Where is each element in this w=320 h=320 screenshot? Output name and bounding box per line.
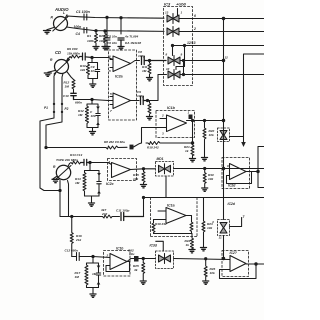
wire IC3h control <box>156 241 164 251</box>
wire IC2c out <box>131 168 156 170</box>
svg-text:R8 262 C6 60u: R8 262 C6 60u <box>104 140 125 144</box>
svg-text:4: 4 <box>108 160 111 164</box>
ground C6 <box>118 47 124 50</box>
jack J1 <box>53 15 68 31</box>
svg-text:7: 7 <box>243 215 246 219</box>
resistor R13b <box>148 101 151 117</box>
label N2 values <box>78 109 96 118</box>
svg-text:R: R <box>53 165 56 169</box>
svg-text:P2: P2 <box>65 107 69 111</box>
wire node D to IC1c <box>93 257 110 258</box>
resistor R19 <box>190 222 193 234</box>
wire C11 up to main line <box>142 196 144 216</box>
RC network N3 <box>83 171 101 203</box>
wire jack3 drop2 <box>68 181 69 217</box>
wire IC3g side <box>230 218 242 227</box>
resistor R23 (from main line) <box>202 198 205 248</box>
op-amp IC1b <box>154 208 187 224</box>
capacitor C11 <box>121 213 144 221</box>
svg-text:IC2d: IC2d <box>228 184 236 188</box>
svg-text:10k: 10k <box>133 177 138 181</box>
op-amp IC1a <box>160 115 187 132</box>
label R25 <box>133 264 139 272</box>
label R11 <box>142 65 148 73</box>
capacitor C6r <box>130 145 134 150</box>
ground N3 <box>89 203 95 206</box>
svg-text:C10: C10 <box>63 94 69 98</box>
op-amp IC2b <box>110 93 131 109</box>
wire jack1 to ground <box>47 28 54 30</box>
wire node A to IC2a <box>92 58 113 60</box>
wire main bottom <box>144 197 265 199</box>
svg-text:L: L <box>63 11 65 15</box>
label R21 <box>184 145 190 153</box>
label C4 100n <box>74 25 82 36</box>
wire IC2d feedback <box>227 172 252 184</box>
resistor R25 <box>142 259 145 282</box>
RC network N1 <box>87 63 100 85</box>
wire 216 <box>60 215 101 217</box>
svg-text:680n: 680n <box>75 101 82 105</box>
wire node D down <box>92 257 94 264</box>
capacitor C4 <box>84 28 87 34</box>
ground R25 <box>140 281 146 284</box>
svg-text:R: R <box>50 58 53 62</box>
label C9b <box>137 90 144 98</box>
svg-text:9: 9 <box>181 53 183 57</box>
svg-text:R13 C13: R13 C13 <box>70 153 82 157</box>
op-amp IC1c <box>110 254 127 270</box>
capacitor C7 <box>80 53 93 60</box>
wire rec <box>46 147 100 149</box>
label R24 242 <box>100 208 107 216</box>
svg-text:1M: 1M <box>75 181 80 185</box>
bus line x223 <box>222 17 224 259</box>
svg-text:+Ub0: +Ub0 <box>176 2 187 7</box>
svg-text:5: 5 <box>110 92 112 96</box>
svg-text:IC1b: IC1b <box>116 247 123 251</box>
svg-text:12/13: 12/13 <box>187 41 196 45</box>
resistor R18 <box>146 142 193 145</box>
svg-text:1M: 1M <box>65 84 70 88</box>
wire jack3 to ground <box>53 177 57 179</box>
ground R1 <box>93 47 99 50</box>
wire IC2a out <box>131 61 140 64</box>
connector marks P1 <box>53 103 63 113</box>
ground R11 <box>147 78 153 81</box>
wire node B to IC2b <box>92 100 113 101</box>
svg-text:100n: 100n <box>74 25 82 29</box>
capacitor C12 <box>72 253 93 261</box>
svg-text:10: 10 <box>166 67 170 71</box>
op-amp IC2c <box>112 163 131 178</box>
label N4 values <box>75 271 97 279</box>
ground C5 <box>104 47 110 50</box>
svg-text:1M: 1M <box>142 69 147 73</box>
ground N1 <box>90 84 96 87</box>
ground jack1 <box>44 31 51 34</box>
control wire 12/13 <box>173 45 265 47</box>
svg-text:C12 680n: C12 680n <box>65 249 79 253</box>
wire gate3 output <box>181 59 225 61</box>
wire IC1c out <box>127 259 134 262</box>
svg-text:IC3d: IC3d <box>150 244 158 248</box>
ground R15 <box>141 185 147 188</box>
wire jack2 drop right <box>46 74 63 148</box>
pin labels IC2d <box>227 164 229 168</box>
resistor R26 <box>204 259 207 281</box>
node jack3 drop <box>59 189 61 191</box>
svg-text:IC1a: IC1a <box>167 204 175 208</box>
svg-text:IC2?: IC2? <box>230 251 237 255</box>
wire drop from wire216 <box>59 181 61 217</box>
svg-text:10k: 10k <box>207 226 212 230</box>
analog switch IC3b <box>167 27 179 37</box>
svg-text:1: 1 <box>181 11 183 15</box>
resistor R21 <box>191 143 194 159</box>
node rec <box>45 146 47 148</box>
ground R20 <box>202 158 208 161</box>
pin labels IC2c <box>108 160 111 164</box>
RC network N4 <box>85 263 101 294</box>
wire IC3f out <box>174 167 265 169</box>
wire R channel <box>67 27 165 31</box>
wire L channel <box>67 16 164 18</box>
node C8 out <box>148 59 150 61</box>
svg-text:2: 2 <box>106 254 109 258</box>
svg-text:IC2a: IC2a <box>115 75 123 79</box>
op-amp IC2e <box>230 256 246 272</box>
IC1 dashed box <box>151 198 198 237</box>
ground R23 <box>201 248 207 251</box>
label R15 <box>133 173 139 181</box>
svg-text:C1 100n: C1 100n <box>76 10 91 14</box>
svg-text:12k: 12k <box>80 68 85 72</box>
capacitor C5 <box>104 34 110 47</box>
pin labels IC1c <box>106 254 109 258</box>
label R9 C7 <box>67 47 80 56</box>
pin labels IC1a <box>161 111 190 136</box>
wire IC1c feedback <box>106 262 130 272</box>
analog switch IC3d <box>168 70 180 80</box>
capacitor C6 <box>118 38 124 47</box>
wire C10 to node B <box>74 99 93 101</box>
label R23 <box>207 222 213 230</box>
IC2e dashed box <box>222 251 249 277</box>
svg-text:4k: 4k <box>133 268 138 272</box>
wire corner up to IC1a minus <box>142 128 167 144</box>
supply stub +Ub <box>177 9 179 16</box>
ground N2 <box>90 132 96 135</box>
svg-text:IC1b: IC1b <box>167 106 176 110</box>
op-amp IC2d <box>230 164 247 180</box>
control stub gate4 <box>176 44 186 69</box>
svg-text:12: 12 <box>225 56 229 60</box>
wire IC2b out <box>131 100 140 102</box>
analog switch IC3h box <box>156 251 174 269</box>
resistor R9 <box>70 55 80 58</box>
capacitor C62 <box>134 256 139 262</box>
IC2c dashed box <box>108 159 137 181</box>
node B <box>91 98 93 100</box>
wire jack2 to ground <box>48 71 55 73</box>
svg-text:2: 2 <box>161 114 164 118</box>
wire gate f control <box>165 176 167 198</box>
capacitor C8 <box>142 57 167 65</box>
svg-text:R9 C80: R9 C80 <box>67 47 78 51</box>
resistor R8 <box>100 146 127 149</box>
svg-text:10k: 10k <box>210 271 215 275</box>
ground N4 <box>90 294 96 297</box>
svg-text:TAPE 20k 680n: TAPE 20k 680n <box>56 158 78 162</box>
jack J2 <box>54 58 70 74</box>
resistor R15 <box>142 169 145 185</box>
svg-text:R19 242: R19 242 <box>155 222 167 226</box>
resistor R22 <box>191 234 194 250</box>
label R20 <box>209 129 215 137</box>
svg-text:6: 6 <box>194 14 196 18</box>
node A <box>91 56 93 58</box>
svg-text:R2: R2 <box>99 34 103 38</box>
svg-text:10k: 10k <box>209 133 214 137</box>
svg-text:R: R <box>51 16 54 20</box>
svg-text:3: 3 <box>162 132 164 136</box>
ground R13b <box>147 117 153 120</box>
svg-text:C11 100p: C11 100p <box>116 209 129 213</box>
svg-text:C5 10n: C5 10n <box>107 35 117 39</box>
label R26 <box>210 267 216 275</box>
ground R30 <box>202 188 208 191</box>
resistor R19b <box>152 220 155 234</box>
svg-text:7: 7 <box>110 109 112 113</box>
resistor R30 <box>203 169 206 189</box>
wire feedback return <box>154 233 192 235</box>
svg-text:10n: 10n <box>91 69 96 73</box>
bus line x243 <box>241 54 264 147</box>
wire node A down <box>91 58 93 63</box>
label R16 <box>75 234 82 242</box>
node drops to RC cluster <box>95 16 122 34</box>
wire to gate4 <box>148 75 167 101</box>
label C10 <box>63 94 82 105</box>
svg-text:1: 1 <box>188 111 190 115</box>
wire node B down <box>91 100 93 105</box>
label N1 values <box>80 64 96 73</box>
label TAPE R13 C13 <box>56 153 82 162</box>
svg-text:10k: 10k <box>208 177 213 181</box>
svg-text:IC3: IC3 <box>164 2 171 7</box>
pin labels IC2b <box>110 92 112 113</box>
svg-text:100p: 100p <box>137 94 144 98</box>
svg-text:1k: 1k <box>185 149 189 153</box>
svg-text:100k: 100k <box>99 39 106 43</box>
IC2d dashed box <box>222 158 250 189</box>
svg-text:1M: 1M <box>78 113 83 117</box>
pin labels gates top <box>165 11 183 72</box>
wire gate4 output <box>181 74 265 76</box>
svg-text:10u: 10u <box>129 252 134 256</box>
svg-text:242: 242 <box>101 212 107 216</box>
wire node FB up <box>192 121 194 144</box>
svg-text:100p: 100p <box>138 54 145 58</box>
wire C8 node down <box>149 61 151 64</box>
svg-text:C6 10n: C6 10n <box>107 41 117 45</box>
wire tie gates 3-4 <box>182 59 184 75</box>
node FB <box>191 142 193 144</box>
ground R21 <box>190 159 196 162</box>
capacitor Csq <box>189 115 193 120</box>
svg-text:P1: P1 <box>44 106 48 110</box>
ground jack3 <box>52 179 59 182</box>
node T <box>89 161 91 163</box>
svg-text:AUDIO: AUDIO <box>54 7 69 12</box>
label R30 <box>208 173 214 181</box>
ground R2 <box>102 47 108 50</box>
svg-text:4: 4 <box>211 220 214 224</box>
svg-text:6: 6 <box>109 55 111 59</box>
svg-text:15k 680n: 15k 680n <box>67 52 80 56</box>
svg-text:IC2d: IC2d <box>228 202 236 206</box>
svg-text:4x TL084: 4x TL084 <box>124 35 139 39</box>
capacitor C13 <box>81 159 91 165</box>
svg-text:1k: 1k <box>186 243 190 247</box>
IC2 dashed box <box>109 50 137 120</box>
wire IC2e out <box>246 263 264 265</box>
RC network N2 <box>86 104 101 132</box>
wire IC2d out <box>246 147 264 188</box>
wire node T to IC2c <box>90 163 112 165</box>
label R12 <box>64 81 70 89</box>
resistor R1 <box>95 34 98 47</box>
capacitor C10 <box>71 93 76 99</box>
analog switch IC3f box <box>156 162 174 177</box>
resistor R12 <box>72 80 75 93</box>
svg-text:8: 8 <box>166 53 168 57</box>
analog switch IC3e (on bus) <box>218 128 230 142</box>
svg-text:11: 11 <box>219 236 222 240</box>
label N3 values <box>75 177 81 185</box>
node C9 out <box>146 99 148 101</box>
jack J3 <box>56 164 72 180</box>
wire jack2 to R12 <box>67 72 74 80</box>
label C62 10u <box>128 249 134 257</box>
svg-text:9: 9 <box>227 164 229 168</box>
svg-text:13: 13 <box>165 11 169 15</box>
node D <box>92 255 94 257</box>
svg-text:C4: C4 <box>76 32 80 36</box>
wire jack2 drop left <box>40 73 60 191</box>
resistor R13 <box>70 161 81 164</box>
wire IC1b feedback <box>186 216 192 223</box>
analog switch IC3c <box>168 56 180 66</box>
resistor R20 <box>203 121 206 158</box>
analog switch IC3a <box>167 14 179 24</box>
resistor R24 <box>101 215 120 218</box>
value labels cluster <box>87 34 141 45</box>
svg-text:R1: R1 <box>87 34 91 38</box>
pin labels IC3e <box>211 220 222 240</box>
resistor R2 <box>104 34 107 47</box>
IC1a dashed box <box>156 111 195 138</box>
svg-text:10k: 10k <box>91 114 96 118</box>
wire IC1a out <box>187 119 225 121</box>
resistor R11 <box>148 63 151 78</box>
wire IC3h out <box>174 258 231 260</box>
IC1c dashed box <box>104 251 131 277</box>
svg-text:21k: 21k <box>75 238 81 242</box>
svg-text:5: 5 <box>109 69 111 73</box>
svg-text:DA 1N4148: DA 1N4148 <box>125 41 141 45</box>
svg-text:MD1: MD1 <box>157 157 164 161</box>
ground jack2 <box>44 73 51 76</box>
wire jack2 to R9 <box>68 57 71 61</box>
ground R26 <box>203 281 209 284</box>
svg-text:R18 242: R18 242 <box>147 146 159 150</box>
pin labels IC2a <box>109 55 111 74</box>
analog switch IC3g (on bus) <box>218 220 230 236</box>
label R22 <box>185 239 191 247</box>
ground R22 <box>189 250 195 253</box>
wire IC2e feedback <box>220 263 258 279</box>
op-amp IC2a <box>110 56 131 72</box>
svg-text:100k: 100k <box>87 39 94 43</box>
wire gate2 output <box>179 31 264 33</box>
IC3 dashed box <box>164 7 193 86</box>
control stub gate3 <box>171 44 173 55</box>
wire rec to corner <box>134 143 142 147</box>
wire IC3e side <box>230 136 244 138</box>
svg-text:IC2c: IC2c <box>106 182 114 186</box>
wire gate1 output <box>179 18 264 20</box>
svg-text:1M: 1M <box>92 272 97 276</box>
svg-text:1M: 1M <box>75 275 80 279</box>
label C8 100p <box>138 50 145 58</box>
resistor R16 <box>70 217 73 257</box>
wire C62 to gate <box>139 257 156 259</box>
svg-text:2: 2 <box>193 27 196 31</box>
wire node T down <box>89 163 91 171</box>
capacitor C9b <box>141 97 148 105</box>
capacitor C1 <box>84 14 87 20</box>
svg-text:CD: CD <box>55 50 61 55</box>
